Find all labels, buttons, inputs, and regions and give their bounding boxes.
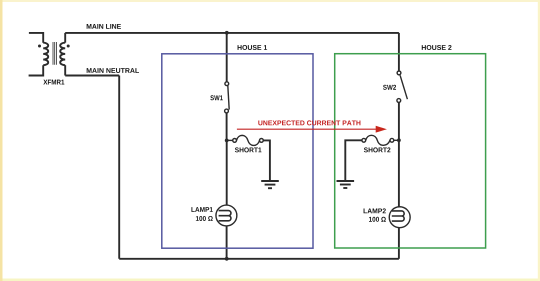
house 2 boundary (335, 54, 486, 248)
label XFMR1 (43, 80, 64, 85)
label LAMP2 value 100 ohm (369, 217, 386, 222)
junction node: SHORT2 tap (397, 138, 401, 142)
lamp LAMP2 (389, 207, 410, 228)
label LAMP1 value 100 ohm (196, 216, 213, 221)
annotation: arrowhead (376, 126, 387, 133)
ground (house 2) (337, 181, 355, 188)
label SW1 (210, 95, 222, 100)
wire SHORT1 to ground (263, 140, 270, 180)
switch SW2 (397, 71, 408, 102)
junction: main line tap to house 1 (225, 31, 229, 35)
label LAMP1 (191, 207, 212, 212)
wire short node to LAMP2 (398, 140, 400, 207)
annotation text UNEXPECTED CURRENT PATH (258, 120, 360, 125)
wire short node to LAMP1 (226, 140, 228, 205)
house 1 boundary (162, 54, 313, 248)
wire neutral drop (118, 76, 120, 259)
wire LAMP1 to neutral rail (226, 226, 228, 259)
label MAIN LINE (87, 24, 121, 29)
label SW2 (383, 85, 396, 90)
label HOUSE 2 (422, 45, 452, 50)
wire MAIN LINE (65, 32, 399, 34)
wire SW2 to short node (398, 102, 400, 140)
label HOUSE 1 (238, 45, 268, 50)
wire house 2 drop (398, 33, 400, 71)
wire SW1 to short node (226, 113, 228, 140)
transformer XFMR1 (29, 33, 70, 76)
wire SHORT2 to ground (345, 140, 362, 180)
junction node: SHORT1 tap (225, 139, 229, 143)
switch SW1 (225, 82, 230, 113)
wire MAIN NEUTRAL (65, 75, 119, 77)
junction: lamp1 return on neutral rail (225, 257, 229, 261)
wire house 1 drop (226, 33, 228, 82)
label SHORT2 (364, 147, 391, 152)
annotation: unexpected current path arrow line (237, 128, 376, 130)
label MAIN NEUTRAL (87, 68, 139, 73)
short SHORT2 (362, 135, 399, 145)
short SHORT1 (227, 135, 264, 145)
lamp LAMP1 (216, 205, 237, 226)
wire bottom neutral rail (119, 258, 399, 260)
label SHORT1 (235, 147, 262, 152)
ground (house 1) (261, 181, 279, 188)
label LAMP2 (364, 208, 386, 213)
wire LAMP2 to neutral rail (398, 228, 400, 259)
